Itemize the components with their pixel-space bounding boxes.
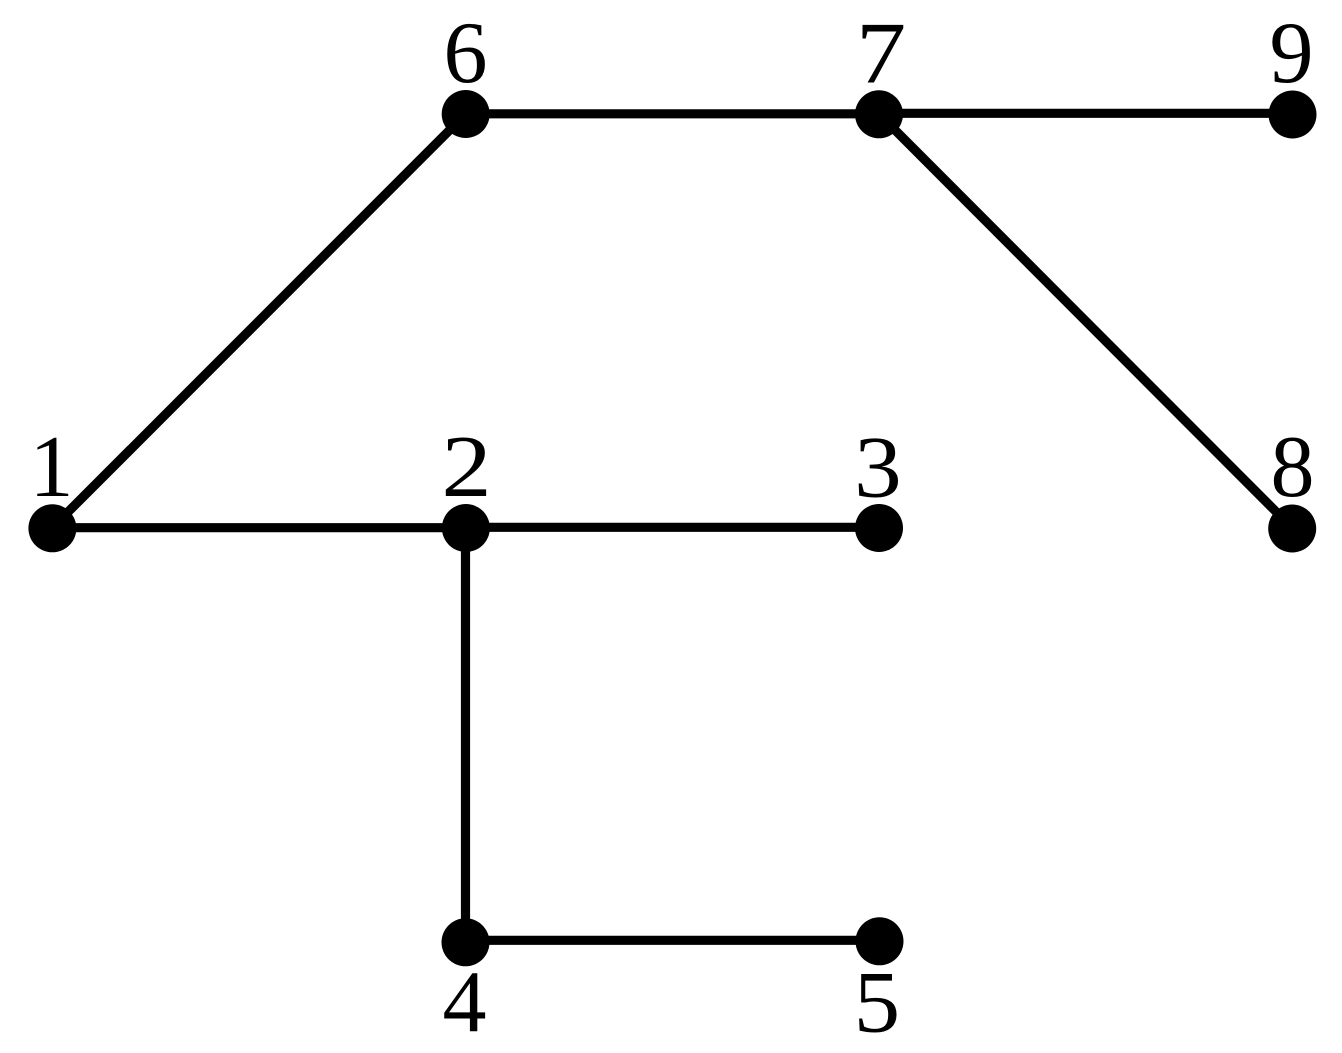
svg-text:1: 1 — [30, 419, 74, 516]
svg-text:2: 2 — [441, 419, 491, 516]
wire 1-6 — [52, 114, 466, 528]
wire 7-9 — [879, 109, 1292, 118]
node 1 — [28, 419, 76, 552]
wire 4-5 — [466, 936, 879, 945]
node 7 — [855, 6, 906, 139]
svg-text:9: 9 — [1270, 5, 1314, 102]
wire 7-8 — [879, 114, 1292, 528]
node 4 — [442, 918, 490, 1051]
svg-text:4: 4 — [443, 954, 487, 1051]
node 2 — [441, 419, 491, 552]
svg-text:3: 3 — [854, 420, 902, 517]
svg-text:8: 8 — [1271, 419, 1315, 516]
svg-text:7: 7 — [856, 6, 906, 103]
node 5 — [854, 917, 904, 1051]
node 8 — [1268, 419, 1316, 553]
node 9 — [1269, 5, 1317, 139]
node 6 — [442, 5, 490, 138]
wire 2-3 — [466, 523, 879, 532]
wire 1-2 — [52, 523, 466, 532]
wire 2-4 — [461, 528, 470, 942]
wire 6-7 — [466, 109, 879, 118]
svg-text:6: 6 — [444, 5, 488, 102]
svg-text:5: 5 — [854, 955, 900, 1052]
node 3 — [854, 420, 903, 553]
